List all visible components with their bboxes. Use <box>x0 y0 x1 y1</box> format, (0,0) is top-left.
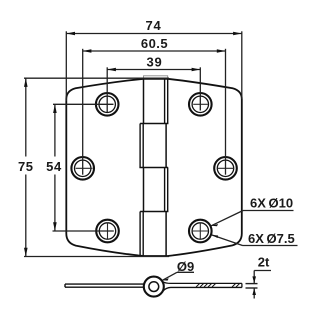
svg-text:60.5: 60.5 <box>141 36 168 51</box>
knuckle segment 1 (right leaf, y 77.8-123.5) <box>144 78 168 124</box>
hole bottom-right <box>189 220 212 243</box>
svg-text:39: 39 <box>146 55 162 70</box>
hole top-right <box>189 93 212 116</box>
hinge body outline (front view) <box>66 79 242 256</box>
dimension 74: line and extensions <box>66 31 242 101</box>
knuckle top cap <box>144 76 168 79</box>
crosshairs <box>76 104 234 239</box>
knuckle segment 2 (left leaf, y 123.5-167.5) <box>140 124 166 168</box>
svg-text:6X Ø7.5: 6X Ø7.5 <box>248 231 295 246</box>
knuckle cut line 2 <box>139 167 168 169</box>
dimension 54: line and extensions <box>53 104 114 231</box>
dimension 2t <box>246 271 272 299</box>
svg-text:Ø9: Ø9 <box>177 259 194 274</box>
svg-text:75: 75 <box>18 159 34 174</box>
leader O9 <box>163 272 194 280</box>
side view left leaf <box>65 284 144 287</box>
side view knuckle barrel <box>144 277 164 297</box>
leader 6X O7.5 <box>212 235 298 246</box>
knuckle cut line 3 <box>140 211 168 213</box>
hole top-left <box>96 93 119 116</box>
dimension 75: line and extensions <box>24 78 169 256</box>
svg-text:2t: 2t <box>258 255 270 270</box>
hole mid-right <box>214 157 237 180</box>
hole mid-left <box>71 157 94 180</box>
knuckle segment 3 (right leaf, y 167.5-211.5) <box>144 168 168 212</box>
svg-text:54: 54 <box>46 159 62 174</box>
svg-text:6X Ø10: 6X Ø10 <box>250 196 293 211</box>
knuckle cut line 1 <box>140 123 168 125</box>
hole bottom-left <box>96 220 119 243</box>
dimension 39: line and extensions <box>107 67 200 112</box>
side view hatching <box>196 284 240 287</box>
knuckle segment 4 (left leaf, y 211.5-254.6) <box>140 212 166 257</box>
dimension 60.5: line and extensions <box>83 49 226 175</box>
svg-text:74: 74 <box>145 18 161 33</box>
leader 6X O10 <box>211 211 293 226</box>
side view right leaf <box>163 282 242 291</box>
